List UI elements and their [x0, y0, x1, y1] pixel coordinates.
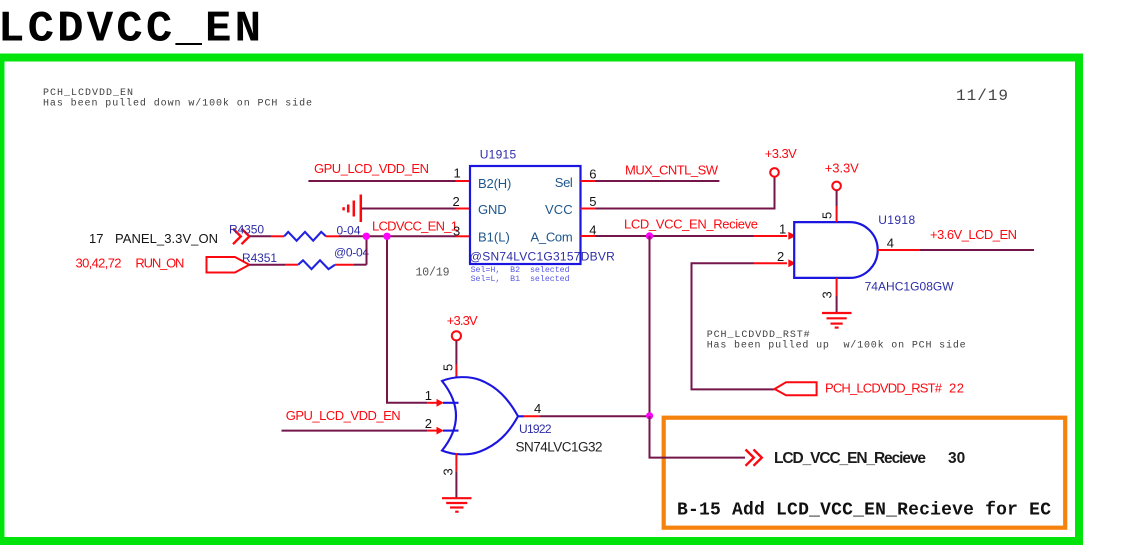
label 17 PANEL_3.3V_ON: [89, 231, 218, 246]
pin number 3 (U1915): [453, 224, 460, 239]
pin number 2 (U1922): [425, 416, 432, 431]
svg-text:LCD_VCC_EN_Recieve: LCD_VCC_EN_Recieve: [774, 450, 926, 467]
IC U1915: [470, 166, 581, 264]
svg-text:6: 6: [589, 166, 596, 181]
ground (U1922 pin 3): [442, 498, 472, 512]
svg-text:GPU_LCD_VDD_EN: GPU_LCD_VDD_EN: [286, 408, 401, 423]
svg-text:74AHC1G08GW: 74AHC1G08GW: [865, 280, 955, 294]
svg-text:LCDVCC_EN: LCDVCC_EN: [0, 5, 261, 55]
svg-text:PCH_LCDVDD_RST#: PCH_LCDVDD_RST#: [825, 380, 943, 395]
connector PCH_LCDVDD_RST#: [775, 382, 817, 395]
label U1918: [878, 213, 915, 227]
U1915 pin name VCC: [545, 202, 573, 217]
svg-text:+3.3V: +3.3V: [447, 313, 478, 328]
chevron LCD_VCC_EN_Recieve (in box): [746, 450, 762, 466]
svg-text:30: 30: [948, 450, 965, 467]
net label LCD_VCC_EN_Recieve: [624, 217, 758, 232]
svg-text:3: 3: [453, 224, 460, 239]
U1915 pin name B1(L): [478, 229, 510, 244]
ground (U1918 pin 3): [822, 313, 852, 328]
net label GPU_LCD_VDD_EN (top): [314, 161, 429, 176]
value 0-04: [337, 224, 361, 238]
net label MUX_CNTL_SW: [625, 163, 719, 178]
off-page chevron PANEL_3.3V_ON: [233, 229, 249, 245]
power symbol +3.3V (U1918): [825, 161, 859, 191]
svg-text:Sel=L, B1 selected: Sel=L, B1 selected: [471, 274, 570, 284]
label U1922: [519, 422, 552, 436]
value @0-04: [334, 246, 369, 260]
pin number 5 (U1918): [820, 212, 835, 219]
svg-text:U1915: U1915: [480, 148, 517, 162]
svg-text:PCH_LCDVDD_EN: PCH_LCDVDD_EN: [43, 88, 133, 99]
svg-text:2: 2: [777, 249, 784, 264]
svg-text:30,42,72: 30,42,72: [76, 256, 122, 271]
part number @SN74LVC1G3157DBVR: [470, 249, 615, 263]
junction dot D: [646, 412, 653, 419]
svg-text:1: 1: [425, 388, 432, 403]
svg-text:R4351: R4351: [242, 251, 277, 265]
net label +3.6V_LCD_EN: [930, 227, 1017, 242]
net label GPU_LCD_VDD_EN (bottom): [286, 408, 401, 423]
wire OR pin 3 to ground: [455, 453, 457, 498]
wire AND pin 3 to ground: [836, 278, 838, 313]
wire +3.3V to AND pin 5: [836, 190, 838, 222]
wire node D down into annotation box: [650, 416, 746, 457]
net label LCDVCC_EN_1: [372, 219, 458, 234]
pin number 1 (U1922): [425, 388, 432, 403]
svg-text:@SN74LVC1G3157DBVR: @SN74LVC1G3157DBVR: [470, 249, 615, 263]
wire U1915 pin 6 MUX_CNTL_SW: [581, 180, 720, 182]
AND gate U1918: [794, 222, 878, 278]
wire U1915 pin 4 A_Com to AND pin 1: [581, 235, 788, 237]
pin number 2 (U1915): [453, 194, 460, 209]
label R4351: [242, 251, 277, 265]
svg-text:5: 5: [589, 194, 596, 209]
svg-text:U1922: U1922: [519, 422, 552, 436]
arrowhead OR pin 1: [427, 399, 444, 407]
svg-text:GND: GND: [478, 202, 507, 217]
U1915 pin name GND: [478, 202, 507, 217]
page number 11/19: [956, 87, 1008, 105]
wire +3.3V to OR pin 5: [455, 341, 457, 379]
svg-text:+3.3V: +3.3V: [825, 161, 859, 176]
svg-text:A_Com: A_Com: [531, 229, 573, 244]
note PCH_LCDVDD_EN: [43, 88, 312, 110]
svg-text:3: 3: [820, 291, 835, 298]
pin number 5 (U1922): [441, 364, 456, 371]
svg-text:2: 2: [453, 194, 460, 209]
svg-text:5: 5: [820, 212, 835, 219]
svg-text:+3.3V: +3.3V: [765, 146, 797, 161]
svg-text:LCD_VCC_EN_Recieve: LCD_VCC_EN_Recieve: [624, 217, 758, 232]
resistor R4351: [249, 260, 366, 269]
svg-text:22: 22: [949, 380, 964, 395]
svg-text:GPU_LCD_VDD_EN: GPU_LCD_VDD_EN: [314, 161, 429, 176]
pin number 4 (U1918): [887, 236, 894, 251]
svg-text:R4350: R4350: [229, 223, 264, 237]
svg-text:PANEL_3.3V_ON: PANEL_3.3V_ON: [115, 231, 218, 246]
page number 10/19: [416, 267, 450, 280]
wire U1915 pin 5 VCC to +3.3V: [581, 177, 775, 209]
svg-text:2: 2: [425, 416, 432, 431]
wire GPU_LCD_VDD_EN to U1915 pin 1: [308, 180, 470, 182]
ground (sideways) at U1915 pin 2: [344, 195, 361, 223]
pin number 3 (U1922): [441, 468, 456, 475]
svg-text:LCDVCC_EN_1: LCDVCC_EN_1: [372, 219, 458, 234]
svg-text:RUN_ON: RUN_ON: [135, 256, 184, 271]
resistor R4350: [250, 232, 339, 241]
svg-text:B2(H): B2(H): [478, 176, 511, 191]
power symbol +3.3V (U1922): [447, 313, 478, 340]
svg-text:Has been pulled up w/100k on: Has been pulled up w/100k on PCH side: [707, 340, 966, 352]
connector RUN_ON: [207, 257, 250, 273]
svg-text:4: 4: [887, 236, 894, 251]
svg-text:11/19: 11/19: [956, 87, 1008, 105]
junction dot C: [646, 232, 653, 239]
junction dot B: [383, 233, 390, 240]
wire R4350 junction to U1915 pin 3: [339, 236, 470, 264]
arrowhead AND pin 1: [788, 232, 796, 240]
note B-15 Add LCD_VCC_EN_Recieve for EC: [677, 501, 1051, 521]
power symbol +3.3V (U1915): [765, 146, 797, 177]
wire AND output to +3.6V_LCD_EN: [878, 249, 1034, 251]
svg-text:+3.6V_LCD_EN: +3.6V_LCD_EN: [930, 227, 1017, 242]
annotation box (orange): [664, 418, 1065, 528]
wire junction down to OR gate pin 1: [387, 236, 427, 402]
U1915 pin name B2(H): [478, 176, 511, 191]
svg-text:B1(L): B1(L): [478, 229, 510, 244]
pin number 1 (U1915): [454, 166, 461, 181]
arrowhead AND pin 2: [788, 259, 796, 267]
svg-text:Sel: Sel: [555, 175, 573, 190]
svg-text:3: 3: [441, 468, 456, 475]
svg-text:Has been pulled down w/100k on: Has been pulled down w/100k on PCH side: [43, 98, 312, 110]
svg-text:U1918: U1918: [878, 213, 915, 227]
pin number 3 (U1918): [820, 291, 835, 298]
pin number 5 (U1915): [589, 194, 596, 209]
wire AND pin 2 from PCH_LCDVDD_RST#: [692, 263, 788, 389]
svg-text:Sel=H, B2 selected: Sel=H, B2 selected: [471, 265, 570, 275]
svg-text:MUX_CNTL_SW: MUX_CNTL_SW: [625, 163, 719, 178]
label SN74LVC1G32: [516, 440, 603, 455]
svg-text:17: 17: [89, 231, 103, 246]
pin number 4 (U1915): [589, 223, 596, 238]
note Sel=H B2 selected: [471, 265, 570, 284]
U1915 pin name Sel: [555, 175, 573, 190]
wire junction C down to OR output node: [649, 236, 651, 414]
wire GPU_LCD_VDD_EN to OR pin 2: [282, 430, 428, 432]
label 74AHC1G08GW: [865, 280, 955, 294]
label PCH_LCDVDD_RST# 22: [825, 380, 964, 395]
pin number 4 (U1922): [534, 401, 541, 416]
arrowhead OR pin 2: [427, 427, 444, 435]
svg-text:PCH_LCDVDD_RST#: PCH_LCDVDD_RST#: [707, 330, 810, 341]
U1915 pin name A_Com: [531, 229, 573, 244]
pin number 6 (U1915): [589, 166, 596, 181]
note PCH_LCDVDD_RST#: [707, 330, 966, 352]
svg-text:4: 4: [589, 223, 596, 238]
svg-text:1: 1: [779, 222, 786, 237]
label 30,42,72 RUN_ON: [76, 256, 185, 271]
svg-text:@0-04: @0-04: [334, 246, 369, 260]
svg-text:SN74LVC1G32: SN74LVC1G32: [516, 440, 603, 455]
svg-text:5: 5: [441, 364, 456, 371]
pin number 1 (U1918): [779, 222, 786, 237]
svg-text:10/19: 10/19: [416, 267, 450, 280]
label U1915: [480, 148, 517, 162]
svg-text:1: 1: [454, 166, 461, 181]
svg-text:B-15 Add LCD_VCC_EN_Recieve fo: B-15 Add LCD_VCC_EN_Recieve for EC: [677, 501, 1051, 521]
wire ground to U1915 pin 2: [362, 208, 471, 210]
pin number 2 (U1918): [777, 249, 784, 264]
label LCD_VCC_EN_Recieve 30: [774, 450, 965, 467]
junction dot A: [363, 233, 370, 240]
svg-text:VCC: VCC: [545, 202, 573, 217]
wire OR output to annotation box: [524, 415, 650, 417]
OR gate U1922: [442, 377, 524, 454]
title LCDVCC_EN: [0, 5, 261, 55]
svg-text:4: 4: [534, 401, 541, 416]
label R4350: [229, 223, 264, 237]
